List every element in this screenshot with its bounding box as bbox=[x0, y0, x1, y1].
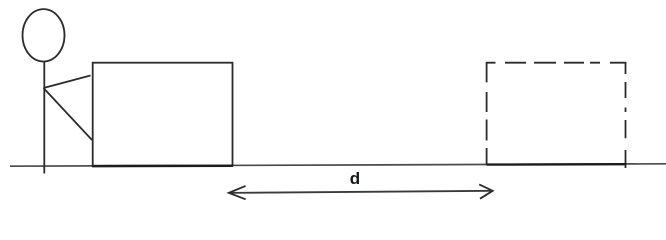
solid box bottom edge on ground bbox=[92, 165, 233, 168]
stick figure body bbox=[43, 62, 45, 174]
svg-text:d: d bbox=[350, 169, 360, 188]
left arrowhead bbox=[229, 186, 246, 199]
stick figure head bbox=[23, 9, 65, 61]
distance arrow shaft bbox=[229, 191, 493, 193]
dashed box bottom edge on ground bbox=[487, 163, 626, 166]
dashed box right edge bbox=[625, 62, 627, 168]
stick figure lower arm bbox=[44, 88, 93, 140]
solid box (pushed block) bbox=[93, 63, 233, 166]
dashed box (future position) left edge bbox=[486, 63, 488, 165]
stick figure upper arm bbox=[44, 76, 91, 89]
dashed box top edge bbox=[486, 62, 627, 64]
ground line bbox=[10, 164, 666, 166]
right arrowhead bbox=[479, 184, 493, 198]
